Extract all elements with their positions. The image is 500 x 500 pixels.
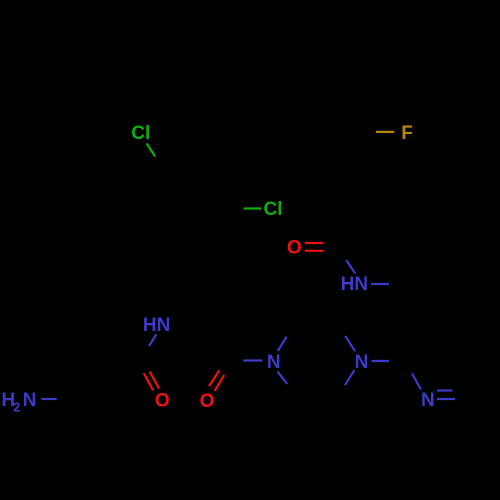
aromatic double bond N=C inner line (blue) <box>437 389 453 391</box>
bond pyridine C2-N half (blue diagonal) <box>412 373 421 389</box>
svg-text:Cl: Cl <box>131 123 150 144</box>
svg-text:F: F <box>401 123 413 144</box>
svg-text:2: 2 <box>13 401 20 415</box>
double bond C=O3 line a (red) <box>209 370 219 386</box>
svg-text:N: N <box>421 390 435 411</box>
double bond C=O1 line b (red) <box>305 250 324 252</box>
bond F1-ring half (gold) <box>376 131 394 133</box>
svg-text:O: O <box>155 391 170 412</box>
bond HN1-CH2 half (blue) <box>371 283 389 285</box>
svg-text:O: O <box>287 238 302 259</box>
double bond C=O1 line a (red) <box>305 242 324 244</box>
svg-text:N: N <box>355 352 369 373</box>
bond N4-pyridine C2 half (blue, horizontal right) <box>372 360 390 362</box>
bond HN2-C(=O) half (blue) <box>149 334 157 346</box>
double bond C=O2 line a (red) <box>144 373 153 390</box>
bond N4-C up-left half (blue) <box>345 336 355 351</box>
svg-text:N: N <box>23 390 37 411</box>
aromatic double bond N=C main line (blue) <box>437 398 455 400</box>
bond N1-C down-right half (blue) <box>278 372 288 384</box>
svg-text:HN: HN <box>341 274 368 295</box>
bond N1-C(=O) half (blue, horizontal left) <box>243 359 262 361</box>
bond Cl1-ring half (green) <box>147 143 156 156</box>
bond C(=O)-N half to HN1 (blue) <box>346 260 355 274</box>
svg-text:Cl: Cl <box>264 199 283 220</box>
svg-text:O: O <box>200 391 215 412</box>
svg-text:HN: HN <box>143 315 170 336</box>
double bond C=O2 line b (red) <box>150 372 159 389</box>
bond N1-C up-right half (blue) <box>278 337 287 352</box>
bond H2N-CH2 half (blue) <box>41 398 56 400</box>
bond N4-C down-left half (blue) <box>345 370 355 385</box>
svg-text:N: N <box>267 352 281 373</box>
bond Cl2-ring half (green) <box>244 207 262 209</box>
double bond C=O3 line b (red) <box>215 375 225 391</box>
